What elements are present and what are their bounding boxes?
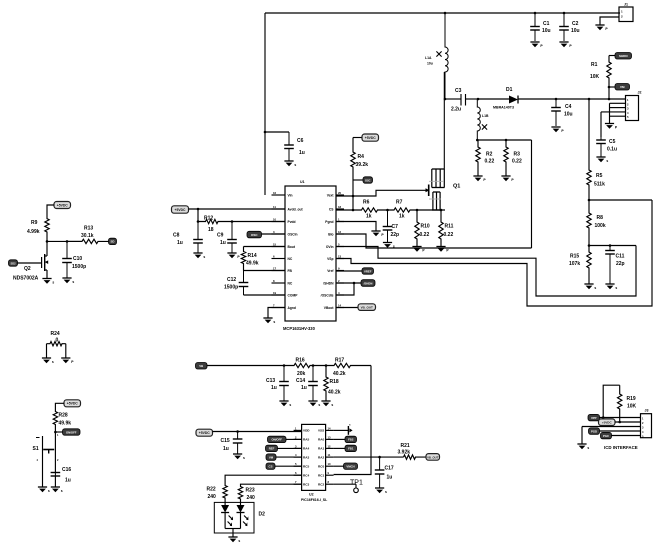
svg-text:12: 12 <box>328 444 331 448</box>
resistor R22 <box>207 484 228 502</box>
svg-text:1u: 1u <box>301 385 307 391</box>
svg-text:C12: C12 <box>227 277 236 283</box>
svg-text:CS: CS <box>269 465 273 469</box>
svg-text:R19: R19 <box>627 396 636 402</box>
svg-text:C17: C17 <box>385 466 394 472</box>
svg-text:VSp: VSp <box>327 257 333 261</box>
svg-text:s: s <box>289 403 291 407</box>
svg-text:1500p: 1500p <box>72 264 86 270</box>
svg-text:s: s <box>615 286 617 290</box>
wire - R14 to pins 15/17 <box>244 247 286 271</box>
diode D2 (dual LED) <box>214 502 265 537</box>
tag ON/OFF (S1 node) <box>54 429 80 435</box>
svg-text:/SHDN: /SHDN <box>323 281 334 285</box>
resistor R10 <box>415 210 430 247</box>
svg-text:C1: C1 <box>543 21 550 27</box>
resistor R3 <box>504 140 522 176</box>
ground - Q2 source <box>42 279 54 285</box>
svg-text:Agnd: Agnd <box>288 306 296 310</box>
ground - R24 left <box>42 358 54 364</box>
tag /SHDN (U1 pin2) <box>336 280 375 287</box>
ground - C14 <box>308 401 320 407</box>
wire - D1 to C4/J2 <box>518 98 626 101</box>
resistor R19 <box>618 385 637 422</box>
svg-text:10K: 10K <box>627 404 637 410</box>
ground - D2 <box>228 537 240 543</box>
tag +5VDC (R9 top) <box>47 202 71 215</box>
svg-text:C6: C6 <box>297 138 304 144</box>
tag OSC (U1 OSCin) <box>247 231 285 238</box>
svg-text:s: s <box>606 159 608 163</box>
svg-text:R5: R5 <box>596 173 603 179</box>
svg-text:Vext: Vext <box>327 193 335 197</box>
svg-text:RC3: RC3 <box>303 482 309 486</box>
svg-text:30.1k: 30.1k <box>81 233 94 239</box>
ground - R24 right <box>61 358 74 364</box>
svg-text:10u: 10u <box>571 28 580 34</box>
ground - R10 <box>412 247 425 253</box>
svg-text:0.22: 0.22 <box>485 159 495 165</box>
svg-text:s: s <box>385 490 387 494</box>
wire - C3 to D1 <box>477 98 509 101</box>
svg-text:R28: R28 <box>59 413 68 419</box>
svg-text:14: 14 <box>338 303 342 307</box>
svg-text:J3: J3 <box>645 409 649 413</box>
svg-text:Pgnd: Pgnd <box>325 220 333 224</box>
transistor Q2 <box>13 241 48 281</box>
svg-text:C9: C9 <box>217 233 224 239</box>
svg-text:s: s <box>61 489 63 493</box>
svg-text:0.22: 0.22 <box>444 232 454 238</box>
svg-text:s: s <box>273 320 275 324</box>
svg-text:10K: 10K <box>590 74 600 80</box>
svg-text:13: 13 <box>338 254 342 258</box>
svg-text:C3: C3 <box>455 88 462 94</box>
svg-text:FB1: FB1 <box>348 447 354 451</box>
tag PGD (J3 pin4) <box>589 428 641 434</box>
capacitor C5 <box>596 137 617 157</box>
svg-text:ON/OFF: ON/OFF <box>271 438 282 442</box>
ground - J2 <box>605 124 618 130</box>
ground - C15 <box>233 454 245 460</box>
inductor L1B <box>477 99 489 140</box>
svg-text:1u: 1u <box>223 446 229 452</box>
svg-text:NC: NC <box>288 257 293 261</box>
svg-text:CS: CS <box>329 207 334 211</box>
svg-text:+5VDC: +5VDC <box>199 431 211 435</box>
wire - L1B bottom node <box>476 139 532 142</box>
tag VPP (J3 pin1) <box>588 414 641 420</box>
tag VM (R1 bottom) <box>608 84 630 91</box>
svg-text:C2: C2 <box>572 21 579 27</box>
tag +5VDC (J3 pin2) <box>599 419 641 426</box>
svg-text:0: 0 <box>56 338 59 344</box>
tag FB1 (U2 RA1) <box>334 445 357 451</box>
svg-text:VMCH: VMCH <box>346 465 354 469</box>
svg-text:s: s <box>72 280 74 284</box>
wire - pin12 to output sense (net A) <box>336 234 532 248</box>
resistor R6 <box>336 200 388 220</box>
svg-text:C14: C14 <box>296 378 305 384</box>
ground - C4 <box>551 127 564 133</box>
svg-text:39.2k: 39.2k <box>356 162 369 168</box>
svg-text:VB_OUT: VB_OUT <box>427 455 439 459</box>
svg-text:R8: R8 <box>597 215 604 221</box>
tag REF (U2 RA4) <box>266 445 302 451</box>
resistor R12 <box>198 215 285 233</box>
svg-text:RC0: RC0 <box>318 464 324 468</box>
tag VMCH (U2 RC0) <box>334 463 358 469</box>
svg-text:R9: R9 <box>31 220 38 226</box>
ground - R18 <box>321 401 333 407</box>
svg-text:240: 240 <box>247 495 256 501</box>
node TP1 <box>334 480 363 493</box>
svg-text:1u: 1u <box>65 478 71 484</box>
ground - C16 <box>51 487 63 493</box>
wire - +5VDC to pin11 <box>189 208 286 211</box>
svg-text:RC1: RC1 <box>318 473 324 477</box>
wire - J3 pin3 to ground <box>582 427 641 445</box>
wire - pin2 to pin4 <box>336 282 355 295</box>
resistor R1 <box>590 56 615 100</box>
svg-text:R18: R18 <box>330 379 339 385</box>
wire - feedback rail <box>207 364 293 367</box>
ground - C8 <box>193 253 205 259</box>
svg-text:VM: VM <box>269 455 274 459</box>
svg-text:0.22: 0.22 <box>512 159 522 165</box>
wire - RA2 node <box>334 456 404 459</box>
svg-text:VPP: VPP <box>591 416 597 420</box>
ground - C17 <box>375 488 387 494</box>
svg-text:COMP: COMP <box>288 293 299 297</box>
svg-text:PIC16F616-I_SL: PIC16F616-I_SL <box>301 498 328 502</box>
capacitor C9 <box>217 222 237 254</box>
svg-text:ON/OFF: ON/OFF <box>66 430 77 434</box>
tag +5VDC (U1 AVDD) <box>172 206 189 213</box>
ground - R2 <box>473 176 486 182</box>
svg-text:R10: R10 <box>421 224 430 230</box>
svg-text:C10: C10 <box>73 256 82 262</box>
svg-text:22p: 22p <box>391 232 400 238</box>
svg-text:RA4: RA4 <box>303 447 309 451</box>
svg-text:+5VDC: +5VDC <box>174 208 186 212</box>
resistor R14 <box>241 247 258 271</box>
svg-text:R23: R23 <box>246 488 255 494</box>
svg-text:Q2: Q2 <box>24 266 31 272</box>
svg-text:SD2: SD2 <box>10 261 16 265</box>
capacitor C13 <box>266 366 289 402</box>
resistor R8 <box>587 200 606 246</box>
ground - U1 Agnd <box>263 318 275 324</box>
resistor R21 <box>398 443 427 459</box>
svg-text:MBRA140T3: MBRA140T3 <box>493 106 514 110</box>
resistor R28 <box>53 409 71 432</box>
svg-text:19: 19 <box>273 291 277 295</box>
resistor R7 <box>386 200 417 220</box>
svg-text:C13: C13 <box>266 378 275 384</box>
svg-text:s: s <box>587 446 589 450</box>
svg-text:R11: R11 <box>445 224 454 230</box>
svg-text:R21: R21 <box>401 443 410 449</box>
svg-text:VREF: VREF <box>364 269 372 273</box>
svg-text:R12: R12 <box>204 215 213 221</box>
svg-text:20k: 20k <box>297 371 306 377</box>
wire - C16 to ground <box>54 476 56 487</box>
svg-text:TP1: TP1 <box>350 480 363 487</box>
ground - C10 <box>62 278 74 284</box>
svg-text:D2: D2 <box>259 512 266 518</box>
tag +5VDC (R28 top) <box>55 400 80 409</box>
svg-text:s: s <box>238 539 240 543</box>
svg-text:L1A: L1A <box>425 56 432 60</box>
svg-text:U2: U2 <box>309 492 314 496</box>
svg-text:1u: 1u <box>271 385 277 391</box>
svg-text:R13: R13 <box>84 225 93 231</box>
wire - VDD rail <box>213 430 302 433</box>
diode D1 <box>493 87 518 110</box>
svg-text:s: s <box>48 489 50 493</box>
ground - J1 <box>595 25 608 31</box>
wire - J2 pins 2,3,5 <box>610 103 626 123</box>
svg-text:MCP1631HV-330: MCP1631HV-330 <box>283 326 316 331</box>
ground - C6 <box>284 161 296 167</box>
svg-text:SD: SD <box>111 240 115 244</box>
power symbol - U2 VSS <box>334 422 353 434</box>
svg-text:OSCin: OSCin <box>288 232 298 236</box>
tag VB_OUT (R21 right) <box>426 454 440 461</box>
svg-text:Pvdd: Pvdd <box>288 220 296 224</box>
svg-text:Bout: Bout <box>288 245 296 249</box>
wire - J2 pin4 to C5 <box>601 112 626 137</box>
svg-text:RA0: RA0 <box>318 438 324 442</box>
wire - Agnd <box>268 308 285 319</box>
svg-text:18: 18 <box>338 205 342 209</box>
node - R5/R8 junction <box>588 199 652 202</box>
resistor R4 <box>351 138 368 197</box>
capacitor C3 <box>451 88 478 113</box>
svg-text:240: 240 <box>208 494 217 500</box>
op-amp U1 MCP1631HV-330 (PWM IC) <box>272 180 345 331</box>
svg-text:11: 11 <box>273 205 276 209</box>
svg-text:16: 16 <box>273 191 277 195</box>
tag +5VDC (R4 top) <box>362 134 379 141</box>
svg-text:C11: C11 <box>616 254 625 260</box>
svg-text:12: 12 <box>338 230 342 234</box>
svg-text:10u: 10u <box>564 112 573 118</box>
svg-text:ICD INTERFACE: ICD INTERFACE <box>604 445 638 450</box>
svg-text:1u: 1u <box>220 240 226 246</box>
capacitor C6 <box>284 132 305 161</box>
tag CS (U2 RC5) <box>266 463 302 469</box>
svg-text:10: 10 <box>328 462 331 466</box>
wire - pin10 feed <box>197 209 200 223</box>
svg-text:3.92k: 3.92k <box>398 449 411 455</box>
wire - Vext to Q1 gate <box>336 188 430 197</box>
svg-text:Vref: Vref <box>327 269 334 273</box>
svg-text:17: 17 <box>273 266 277 270</box>
svg-text:PGD: PGD <box>591 429 597 433</box>
node - ICD label <box>604 445 638 450</box>
svg-text:s: s <box>243 456 245 460</box>
connector J1 <box>619 2 633 21</box>
svg-text:+5VDC: +5VDC <box>365 136 377 140</box>
ground - C1 <box>530 42 543 48</box>
svg-text:Avdd_out: Avdd_out <box>288 207 304 211</box>
capacitor C10 <box>62 241 86 278</box>
svg-text:R4: R4 <box>358 154 365 160</box>
capacitor C16 <box>51 467 72 484</box>
wire - CS sense node <box>416 209 445 212</box>
connector J3 <box>641 409 652 439</box>
svg-text:VBoot: VBoot <box>324 306 335 310</box>
svg-text:/SHDN: /SHDN <box>364 281 373 285</box>
svg-text:18: 18 <box>208 227 214 233</box>
svg-text:OSC: OSC <box>365 178 371 182</box>
resistor R23 <box>238 485 255 502</box>
tag PGC (J3 pin5) <box>601 432 641 438</box>
svg-text:s: s <box>331 403 333 407</box>
connector J2 <box>626 91 642 121</box>
svg-text:15: 15 <box>273 242 277 246</box>
ground - R15 <box>584 284 596 290</box>
ground - C9 <box>227 253 240 259</box>
tag VB_OUT (U1 pin14) <box>336 304 376 311</box>
wire - Pgnd <box>336 222 376 232</box>
wire - RC3 to R23 <box>241 483 302 486</box>
transistor Q1 (power MOSFET) <box>429 72 461 210</box>
wire - J1 pin2 to ground <box>600 17 619 25</box>
svg-text:20: 20 <box>338 191 342 195</box>
ground - C7 <box>383 243 395 249</box>
svg-text:100k: 100k <box>595 223 606 229</box>
wire - output sense drop <box>531 140 533 248</box>
resistor R11 <box>439 210 454 247</box>
wire - node VIN/SEPIC y99 <box>444 98 461 101</box>
ground - C13 <box>279 401 291 407</box>
svg-text:VB_OUT: VB_OUT <box>361 306 373 310</box>
svg-text:R3: R3 <box>514 152 521 158</box>
ground - R3 <box>501 176 514 182</box>
svg-text:49.9k: 49.9k <box>246 261 259 267</box>
svg-text:+5VDC: +5VDC <box>67 402 79 406</box>
svg-text:s: s <box>52 360 54 364</box>
wire - C6 branch <box>264 131 289 134</box>
svg-text:R14: R14 <box>248 253 257 259</box>
svg-text:VM: VM <box>620 85 625 89</box>
svg-text:C5: C5 <box>609 139 616 145</box>
resistor R5 <box>587 99 605 200</box>
wire - R17 to U2 RC1 <box>334 366 371 475</box>
svg-text:40.2k: 40.2k <box>328 390 341 396</box>
svg-text:4.99k: 4.99k <box>27 229 40 235</box>
svg-text:Vin: Vin <box>288 193 293 197</box>
resistor R13 <box>67 225 109 243</box>
capacitor C2 <box>559 13 579 41</box>
svg-text:1k: 1k <box>399 214 405 220</box>
svg-text:SHDN: SHDN <box>619 54 628 58</box>
svg-text:10u: 10u <box>427 62 433 66</box>
svg-text:FB: FB <box>288 269 293 273</box>
node - R8/R15 junction <box>588 244 636 247</box>
svg-text:1500p: 1500p <box>224 285 238 291</box>
tag VB (feedback in) <box>196 363 208 370</box>
svg-text:RA2: RA2 <box>318 455 324 459</box>
wire - R19 top bracket <box>603 385 620 417</box>
resistor R17 <box>313 357 371 376</box>
svg-text:D1: D1 <box>506 87 513 93</box>
svg-text:2.2u: 2.2u <box>451 107 461 113</box>
tag SD2 (Q2 gate) <box>9 260 42 266</box>
svg-text:1u: 1u <box>299 150 305 156</box>
svg-text:RA5: RA5 <box>303 438 309 442</box>
resistor R9 <box>27 214 49 241</box>
wire - top input rail <box>265 12 620 195</box>
ground - J3 <box>577 444 589 450</box>
svg-text:U1: U1 <box>300 180 305 184</box>
svg-text:511k: 511k <box>594 182 605 188</box>
wire - C12 to pin19 <box>244 294 286 296</box>
svg-text:C15: C15 <box>221 438 230 444</box>
svg-text:s: s <box>594 286 596 290</box>
svg-text:40.2k: 40.2k <box>333 371 346 377</box>
svg-text:OSC: OSC <box>251 233 258 237</box>
wire - pin13 VSp sense (net C) <box>336 200 652 306</box>
svg-text:49.9k: 49.9k <box>59 421 72 427</box>
svg-text:1u: 1u <box>387 475 393 481</box>
tag OSC (R4 node) <box>353 177 373 183</box>
svg-text:REF: REF <box>269 447 275 451</box>
svg-text:VDD: VDD <box>303 429 310 433</box>
svg-text:L1B: L1B <box>482 114 489 118</box>
svg-text:s: s <box>294 163 296 167</box>
svg-text:R24: R24 <box>51 331 60 337</box>
svg-text:10u: 10u <box>542 28 551 34</box>
svg-text:13: 13 <box>328 435 331 439</box>
svg-text:RC5: RC5 <box>303 464 309 468</box>
capacitor C7 <box>383 210 399 243</box>
svg-text:R1: R1 <box>591 62 598 68</box>
svg-text:PGC: PGC <box>603 434 609 438</box>
ground - U1 Pgnd <box>371 231 384 237</box>
svg-text:/OSCdis: /OSCdis <box>321 293 334 297</box>
resistor R2 <box>476 140 495 176</box>
resistor R15 <box>569 246 591 285</box>
svg-text:R2: R2 <box>486 152 493 158</box>
capacitor C8 <box>173 222 203 254</box>
svg-text:NC: NC <box>288 281 293 285</box>
op-amp U2 PIC16F616 (microcontroller) <box>294 424 334 502</box>
svg-text:VSS: VSS <box>318 429 324 433</box>
ground - S1 <box>38 487 50 493</box>
capacitor C11 <box>605 246 624 285</box>
svg-text:1k: 1k <box>366 214 372 220</box>
svg-text:14: 14 <box>328 426 331 430</box>
svg-text:RC4: RC4 <box>303 473 309 477</box>
capacitor C4 <box>551 99 572 126</box>
svg-text:R22: R22 <box>207 487 216 493</box>
svg-text:FB2: FB2 <box>348 438 354 442</box>
capacitor C17 <box>375 457 394 488</box>
svg-text:C16: C16 <box>62 467 71 473</box>
svg-text:C4: C4 <box>565 104 572 110</box>
svg-text:0.22: 0.22 <box>420 232 430 238</box>
svg-text:NDS7002A: NDS7002A <box>13 276 39 282</box>
capacitor C1 <box>530 13 550 41</box>
svg-text:R17: R17 <box>335 357 344 363</box>
wire - Q2 drain node <box>46 240 82 243</box>
svg-text:R6: R6 <box>363 200 370 206</box>
svg-text:VB: VB <box>199 364 203 368</box>
